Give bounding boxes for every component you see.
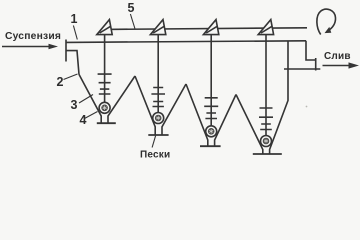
- overflow weir step: [306, 41, 316, 60]
- rod 3: [210, 35, 212, 127]
- leader 5: [130, 14, 135, 29]
- trough top line: [66, 41, 306, 43]
- nozzle triangle 4: [258, 20, 273, 35]
- svg-text:3: 3: [71, 98, 78, 112]
- overflow arrow (Слив): [323, 62, 360, 68]
- feed arrow (Суспензия): [2, 44, 58, 50]
- valve circle 3: [206, 126, 217, 137]
- svg-text:1: 1: [71, 12, 78, 26]
- rod 1: [104, 35, 106, 104]
- leader 4: [85, 112, 98, 119]
- water pipe top: [106, 28, 307, 30]
- chamber 3 right wall: [215, 95, 236, 147]
- rotation loop symbol: [317, 9, 336, 34]
- leader Пески: [152, 136, 156, 148]
- rod 2: [157, 35, 159, 114]
- nozzle triangle 2: [150, 20, 165, 35]
- chamber 4 base: [253, 153, 282, 155]
- rod 4 ticks: [259, 108, 273, 130]
- overflow bottom line: [284, 68, 320, 70]
- valve circle 4: [261, 136, 272, 147]
- chamber 1 left wall: [79, 74, 101, 123]
- svg-text:Слив: Слив: [324, 51, 351, 62]
- svg-text:2: 2: [57, 75, 64, 89]
- overflow end cap: [315, 58, 317, 71]
- svg-text:Суспензия: Суспензия: [5, 31, 61, 42]
- feed step wall 2: [66, 51, 79, 75]
- leader 1: [73, 26, 77, 40]
- feed box left wall: [65, 40, 67, 62]
- trough right wall / chamber 4 right wall: [270, 41, 288, 154]
- chamber 2 right wall: [162, 84, 186, 135]
- svg-text:5: 5: [128, 1, 135, 15]
- rod 1 ticks: [98, 74, 112, 94]
- nozzle triangle 3: [203, 20, 218, 35]
- chamber 1 base: [97, 122, 116, 124]
- chamber 2 left wall: [135, 76, 155, 135]
- leader 2: [64, 74, 78, 80]
- valve circle 1: [99, 102, 110, 113]
- chamber 3 left wall: [186, 84, 208, 146]
- chamber 2 base: [148, 134, 168, 136]
- svg-text:Пески: Пески: [140, 150, 170, 161]
- chamber 3 base: [200, 145, 221, 147]
- rod 2 ticks: [151, 88, 165, 107]
- chamber 4 left wall: [236, 95, 263, 155]
- scan dot artifact: [306, 106, 308, 108]
- chamber 1 right wall: [108, 76, 135, 123]
- nozzle triangle 1: [97, 20, 112, 35]
- svg-text:4: 4: [80, 113, 87, 127]
- rod 3 ticks: [204, 98, 218, 119]
- valve circle 2: [153, 113, 164, 124]
- leader 3: [79, 95, 93, 104]
- rod 4: [265, 35, 267, 137]
